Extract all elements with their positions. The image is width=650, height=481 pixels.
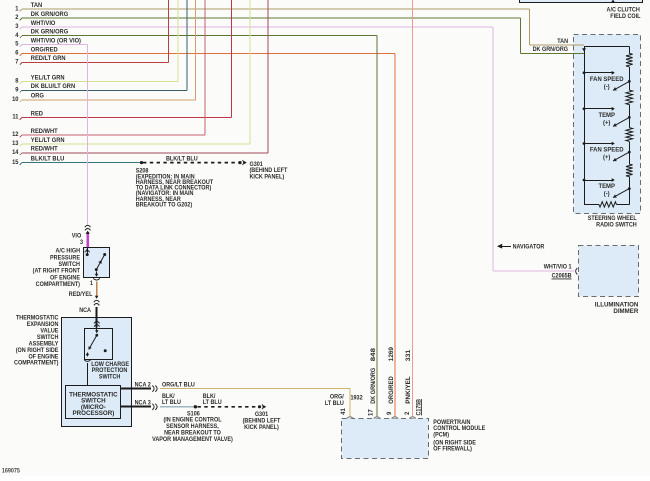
svg-text:WHT/VIO 1: WHT/VIO 1	[544, 264, 573, 270]
svg-text:WHT/VIO (OR VIO): WHT/VIO (OR VIO)	[31, 38, 81, 44]
svg-text:17: 17	[369, 409, 375, 416]
svg-text:13: 13	[12, 141, 19, 147]
svg-text:ORG/RED: ORG/RED	[389, 376, 395, 404]
svg-text:SENSOR HARNESS,: SENSOR HARNESS,	[166, 424, 219, 430]
svg-text:VALUE: VALUE	[40, 328, 58, 334]
svg-text:RED/WHT: RED/WHT	[31, 129, 58, 135]
svg-text:RED/WHT: RED/WHT	[31, 147, 58, 153]
svg-text:SWITCH: SWITCH	[99, 374, 120, 380]
svg-text:(PCM): (PCM)	[433, 433, 449, 439]
svg-text:12: 12	[12, 132, 19, 138]
svg-text:C175B: C175B	[416, 398, 422, 415]
svg-text:(AT RIGHT FRONT: (AT RIGHT FRONT	[33, 269, 81, 275]
svg-text:NEAR BREAKOUT TO: NEAR BREAKOUT TO	[164, 430, 221, 436]
svg-text:ORG/RED: ORG/RED	[31, 47, 58, 53]
svg-text:THERMOSTATIC: THERMOSTATIC	[16, 315, 58, 321]
svg-text:DK GRN/ORG: DK GRN/ORG	[31, 12, 69, 18]
svg-text:KICK PANEL): KICK PANEL)	[244, 425, 279, 431]
svg-text:OF ENGINE: OF ENGINE	[50, 275, 80, 281]
svg-text:COMPARTMENT): COMPARTMENT)	[14, 361, 58, 367]
svg-text:PROCESSOR): PROCESSOR)	[72, 410, 114, 417]
svg-text:OF ENGINE: OF ENGINE	[28, 354, 58, 360]
svg-text:STEERING WHEEL: STEERING WHEEL	[588, 216, 637, 222]
svg-text:848: 848	[371, 347, 377, 361]
svg-text:(+): (+)	[603, 155, 610, 161]
svg-text:VAPOR MANAGEMENT VALVE): VAPOR MANAGEMENT VALVE)	[152, 437, 233, 443]
svg-text:1932: 1932	[350, 395, 362, 401]
svg-text:(-): (-)	[604, 84, 610, 90]
svg-text:DK BLU/LT GRN: DK BLU/LT GRN	[31, 84, 75, 90]
svg-text:ORG/: ORG/	[330, 395, 344, 401]
svg-text:DK GRN/ORG: DK GRN/ORG	[371, 367, 377, 403]
svg-text:15: 15	[12, 160, 19, 166]
svg-text:(IN ENGINE CONTROL: (IN ENGINE CONTROL	[163, 417, 222, 423]
svg-text:11: 11	[12, 115, 19, 121]
svg-text:TEMP: TEMP	[598, 113, 614, 119]
svg-text:LT BLU: LT BLU	[203, 400, 222, 406]
svg-text:10: 10	[12, 97, 19, 103]
svg-text:COMPARTMENT): COMPARTMENT)	[36, 282, 80, 288]
svg-text:RED/LT GRN: RED/LT GRN	[31, 56, 66, 62]
svg-text:PROTECTION: PROTECTION	[92, 368, 128, 374]
svg-text:14: 14	[12, 150, 19, 156]
svg-text:DK GRN/ORG: DK GRN/ORG	[31, 29, 69, 35]
svg-text:3: 3	[80, 240, 83, 246]
svg-text:FIELD COIL: FIELD COIL	[610, 14, 641, 20]
svg-text:RADIO SWITCH: RADIO SWITCH	[596, 222, 637, 228]
svg-text:WHT/VIO: WHT/VIO	[31, 21, 56, 27]
svg-text:169075: 169075	[2, 468, 21, 474]
svg-text:YEL/LT GRN: YEL/LT GRN	[31, 138, 65, 144]
svg-text:LOW CHARGE: LOW CHARGE	[91, 362, 129, 368]
svg-text:PNK/YEL: PNK/YEL	[406, 376, 412, 404]
svg-text:DIMMER: DIMMER	[613, 308, 638, 315]
svg-text:RED: RED	[31, 111, 43, 117]
svg-text:NCA: NCA	[79, 308, 91, 314]
svg-text:CONTROL MODULE: CONTROL MODULE	[433, 426, 485, 432]
svg-text:ORG/LT BLU: ORG/LT BLU	[162, 382, 195, 388]
svg-text:TEMP: TEMP	[598, 184, 614, 190]
svg-text:NCA 2: NCA 2	[135, 382, 151, 388]
svg-text:(ON RIGHT SIDE: (ON RIGHT SIDE	[16, 348, 59, 354]
svg-text:BLK/LT BLU: BLK/LT BLU	[31, 156, 64, 162]
svg-text:EXPANSION: EXPANSION	[27, 322, 59, 328]
svg-text:41: 41	[341, 407, 347, 414]
svg-text:(+): (+)	[603, 120, 610, 126]
svg-text:A/C HIGH: A/C HIGH	[56, 248, 80, 254]
svg-text:1269: 1269	[389, 346, 395, 361]
svg-text:RED/YEL: RED/YEL	[69, 292, 93, 298]
svg-text:PRESSURE: PRESSURE	[50, 255, 80, 261]
svg-text:YEL/LT GRN: YEL/LT GRN	[31, 75, 65, 81]
svg-text:SWITCH: SWITCH	[59, 262, 80, 268]
svg-text:(-): (-)	[604, 192, 610, 198]
svg-text:NAVIGATOR: NAVIGATOR	[513, 245, 546, 251]
svg-text:TAN: TAN	[557, 39, 568, 45]
svg-text:331: 331	[406, 349, 412, 361]
svg-text:SWITCH: SWITCH	[37, 335, 58, 341]
svg-text:C2065B: C2065B	[552, 273, 572, 279]
svg-text:KICK PANEL): KICK PANEL)	[250, 174, 285, 180]
svg-text:FAN SPEED: FAN SPEED	[590, 77, 624, 83]
svg-text:LT BLU: LT BLU	[162, 400, 181, 406]
svg-text:NCA 3: NCA 3	[135, 400, 151, 406]
svg-text:ASSEMBLY: ASSEMBLY	[29, 341, 59, 347]
svg-text:DK GRN/ORG: DK GRN/ORG	[533, 47, 569, 53]
svg-text:BREAKOUT TO G202): BREAKOUT TO G202)	[136, 202, 193, 208]
svg-text:ORG: ORG	[31, 94, 45, 100]
svg-text:TAN: TAN	[31, 3, 42, 9]
svg-text:LT BLU: LT BLU	[325, 401, 344, 407]
svg-text:BLK/LT BLU: BLK/LT BLU	[166, 156, 198, 162]
svg-text:FAN SPEED: FAN SPEED	[590, 148, 624, 154]
svg-text:OF FIREWALL): OF FIREWALL)	[433, 446, 472, 452]
